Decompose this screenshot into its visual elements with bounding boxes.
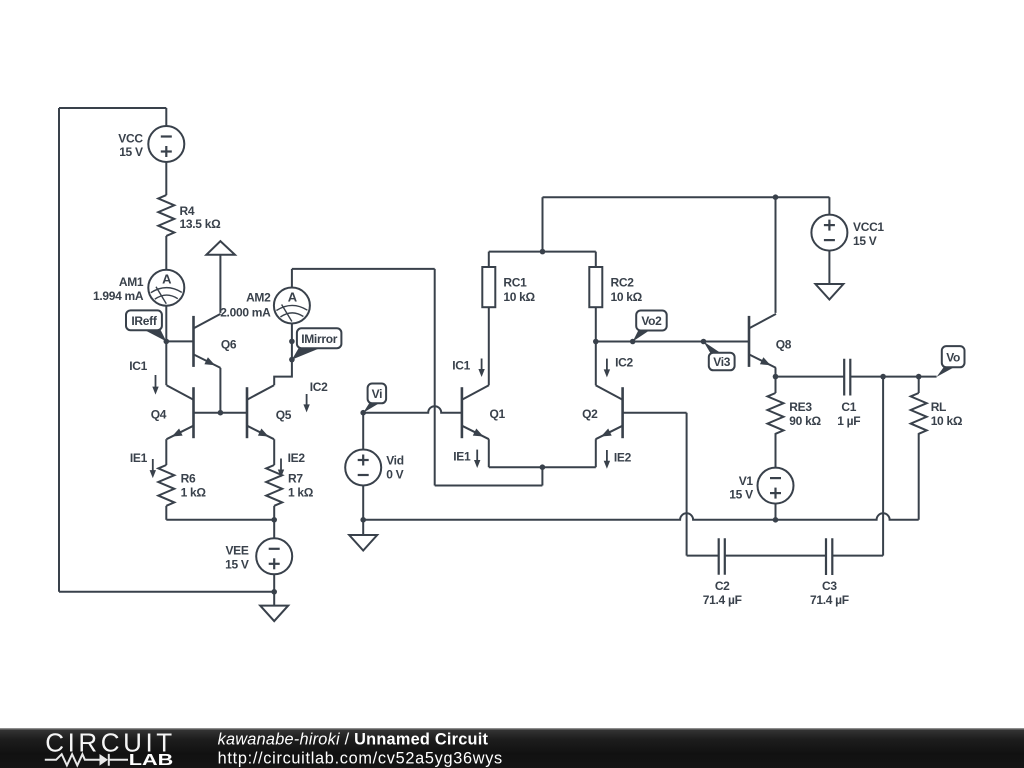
svg-text:IE1: IE1	[453, 449, 471, 463]
junction top rail Q8	[773, 194, 779, 200]
svg-text:RC2: RC2	[611, 276, 635, 290]
wire RE3 top lead	[775, 377, 777, 393]
capacitor C3	[826, 538, 832, 575]
svg-text:IC1: IC1	[452, 359, 470, 373]
node flag Vo	[937, 346, 965, 377]
wire VEE to bottom node	[273, 574, 275, 592]
svg-text:IE1: IE1	[130, 451, 148, 465]
junction RC bus	[540, 249, 546, 255]
wire Q8 collector to top rail	[775, 197, 777, 313]
wire Q1 collector to RC1	[488, 307, 490, 385]
svg-text:IE2: IE2	[614, 451, 632, 465]
current arrow IE1 mirror	[130, 451, 156, 478]
wire Q6 collector to arrow	[219, 255, 221, 313]
voltage source V1	[758, 468, 794, 504]
wire C2-C3 bottom link	[687, 555, 884, 557]
ammeter AM2	[274, 288, 310, 324]
svg-text:10 kΩ: 10 kΩ	[503, 290, 535, 304]
svg-text:15 V: 15 V	[225, 558, 249, 572]
svg-text:AM1: AM1	[119, 275, 144, 289]
wire IReff node to Q4 collector	[165, 341, 167, 385]
svg-text:R4: R4	[180, 204, 195, 218]
svg-text:IC2: IC2	[615, 356, 633, 370]
wire Q4-Q5 base rail	[194, 412, 248, 414]
wire C3 up to output node	[882, 377, 884, 556]
svg-text:Vo: Vo	[946, 350, 960, 364]
wire R6-R7 bottom rail	[166, 519, 274, 521]
transistor Q1	[462, 385, 506, 439]
svg-text:kawanabe-hiroki / Unnamed Circ: kawanabe-hiroki / Unnamed Circuit	[218, 731, 489, 749]
svg-text:Q5: Q5	[276, 408, 292, 422]
wire Q8 emitter stub	[775, 368, 777, 377]
wire Q6 emitter stub	[219, 368, 221, 413]
svg-text:V1: V1	[739, 474, 754, 488]
node flag IReff	[126, 310, 166, 341]
svg-text:IC2: IC2	[310, 380, 328, 394]
wire VCC top lead	[165, 108, 167, 126]
svg-text:Vi: Vi	[372, 387, 383, 401]
ammeter AM1	[148, 270, 184, 306]
svg-text:R6: R6	[181, 472, 196, 486]
resistor R7	[266, 465, 282, 506]
wire VCC to R4	[165, 162, 167, 195]
svg-text:Vo2: Vo2	[641, 314, 662, 328]
svg-text:C1: C1	[841, 400, 856, 414]
svg-text:RC1: RC1	[503, 276, 527, 290]
wire Q2 base	[623, 412, 687, 414]
voltage source VEE	[256, 538, 292, 574]
wire VCC1 top lead	[828, 197, 830, 215]
svg-text:AM2: AM2	[246, 290, 271, 304]
junction VEE bottom	[271, 589, 277, 595]
current arrow IE2 mirror	[278, 451, 306, 477]
svg-text:A: A	[288, 290, 298, 305]
svg-text:71.4 µF: 71.4 µF	[703, 593, 742, 607]
current arrow IE2 diff pair	[604, 450, 632, 469]
transistor Q4	[151, 385, 194, 439]
junction V1 ground rail	[773, 517, 779, 523]
wire Q1-Q2 emitter rail	[489, 466, 596, 468]
supply arrow above Q6	[206, 241, 235, 255]
junction tail-emitter rail	[540, 464, 546, 470]
junction C3 output node	[880, 374, 886, 380]
current arrow IC1 mirror	[129, 359, 158, 394]
svg-text:Vi3: Vi3	[713, 355, 731, 369]
node flag Vi3	[704, 342, 735, 371]
svg-text:71.4 µF: 71.4 µF	[810, 593, 849, 607]
junction IReff node	[164, 339, 170, 345]
wire main ground rail with hops	[363, 513, 919, 520]
junction Q4-Q5 base rail	[218, 410, 224, 416]
voltage source VCC1	[811, 215, 847, 251]
wire RC1-RC2 top bus	[489, 251, 596, 253]
wire AM1 to IReff node	[165, 306, 167, 342]
wire AM2 top horizontal	[292, 268, 435, 270]
junction IMirror lower	[289, 357, 295, 363]
wire RE3 to V1	[775, 433, 777, 467]
wire R7 bottom lead	[273, 506, 275, 520]
wire Vi to Q1 base with hop	[363, 406, 462, 412]
wire diff tail vertical	[434, 269, 436, 486]
wire top rail horizontal	[543, 196, 830, 198]
svg-text:RL: RL	[931, 400, 946, 414]
wire RC2 node to Q2 collector	[595, 342, 597, 386]
junction Vi3 tail	[701, 339, 707, 345]
wire Q2 base down to C2	[686, 413, 688, 556]
svg-text:IReff: IReff	[131, 314, 157, 328]
svg-text:http://circuitlab.com/cv52a5yg: http://circuitlab.com/cv52a5yg36wys	[218, 750, 503, 768]
current arrow IC2 diff pair	[604, 356, 634, 378]
ground below VCC1	[815, 284, 843, 300]
svg-text:VEE: VEE	[225, 544, 248, 558]
wire R6 bottom lead	[165, 506, 167, 520]
wire diff tail horizontal	[435, 485, 543, 487]
wire Vid ground stub	[362, 520, 364, 535]
transistor Q2	[582, 385, 623, 439]
wire Vi node to Vid	[362, 413, 364, 450]
capacitor C1	[844, 359, 850, 396]
resistor R6	[158, 465, 174, 506]
CircuitLab logo resistor-diode glyph	[45, 754, 128, 766]
svg-text:10 kΩ: 10 kΩ	[931, 414, 963, 428]
svg-text:15 V: 15 V	[853, 234, 877, 248]
svg-text:Q4: Q4	[151, 407, 167, 421]
svg-text:0 V: 0 V	[386, 467, 403, 481]
svg-text:Q2: Q2	[582, 407, 598, 421]
svg-text:Q8: Q8	[776, 338, 792, 352]
wire RC2 bottom lead	[595, 307, 597, 341]
wire VCC1 to ground	[828, 250, 830, 284]
svg-text:Vid: Vid	[386, 453, 404, 467]
resistor RC2	[589, 267, 602, 307]
junction Vi node	[360, 410, 366, 416]
junction IMirror upper	[289, 339, 295, 345]
svg-text:RE3: RE3	[789, 400, 812, 414]
svg-text:R7: R7	[288, 472, 303, 486]
wire left vertical rail	[58, 108, 60, 592]
svg-text:VCC1: VCC1	[853, 220, 884, 234]
wire Q2 emitter stub	[595, 439, 597, 467]
wire AM2 top lead	[291, 269, 293, 288]
svg-text:C2: C2	[715, 579, 730, 593]
svg-text:1.994 mA: 1.994 mA	[93, 289, 144, 303]
svg-text:15 V: 15 V	[119, 145, 143, 159]
wire Q1 emitter stub	[488, 439, 490, 467]
svg-text:C3: C3	[822, 579, 837, 593]
wire diff tail up to emitter rail	[541, 467, 543, 485]
wire VEE ground stub	[273, 592, 275, 606]
wire rail to VEE	[273, 520, 275, 539]
wire Q5 collector jog	[274, 323, 292, 385]
wire Q8 emitter node to Vo	[776, 376, 937, 378]
junction Vo2 tail	[630, 339, 636, 345]
current arrow IC2 mirror	[303, 380, 328, 412]
wire RC2 top lead	[595, 252, 597, 267]
transistor Q6	[194, 314, 237, 368]
junction Q8 emitter node	[773, 374, 779, 380]
svg-text:1 µF: 1 µF	[837, 414, 860, 428]
wire top rail left drop	[542, 197, 544, 251]
svg-text:1 kΩ: 1 kΩ	[288, 486, 314, 500]
wire Q6 base	[166, 340, 193, 342]
svg-text:Q6: Q6	[221, 338, 237, 352]
ground below VEE	[260, 606, 288, 622]
svg-text:LAB: LAB	[129, 752, 174, 768]
voltage source VCC	[148, 126, 184, 162]
resistor R4	[158, 195, 174, 236]
capacitor C2	[719, 538, 725, 574]
svg-text:10 kΩ: 10 kΩ	[611, 290, 643, 304]
svg-text:A: A	[162, 272, 172, 287]
svg-text:15 V: 15 V	[729, 488, 753, 502]
wire mirror row to Q8 base	[596, 341, 749, 343]
svg-text:90 kΩ: 90 kΩ	[789, 414, 821, 428]
wire R4 to AM1	[165, 236, 167, 270]
svg-text:1 kΩ: 1 kΩ	[181, 486, 207, 500]
wire Vid to ground rail	[362, 486, 364, 520]
voltage source Vid	[345, 450, 381, 486]
wire bottom-left horizontal	[59, 591, 274, 593]
svg-text:IC1: IC1	[129, 359, 147, 373]
node flag Vo2	[633, 311, 667, 342]
resistor RC1	[482, 267, 495, 307]
current arrow IC1 diff pair	[452, 359, 485, 378]
svg-text:2.000 mA: 2.000 mA	[220, 306, 271, 320]
junction RC2-Vo2 node	[593, 339, 599, 345]
node flag Vi	[363, 384, 386, 413]
svg-text:Q1: Q1	[490, 407, 506, 421]
resistor RE3	[768, 393, 784, 434]
ground below Vid	[349, 535, 377, 551]
bottom bar background	[0, 728, 1024, 768]
junction R6R7-VEE	[271, 517, 277, 523]
resistor RL	[911, 393, 927, 434]
wire RL top lead	[918, 377, 920, 393]
node flag IMirror	[292, 328, 342, 359]
junction Vid ground	[360, 517, 366, 523]
wire Q4 emitter to R6	[165, 439, 167, 465]
svg-text:13.5 kΩ: 13.5 kΩ	[180, 217, 222, 231]
svg-text:IE2: IE2	[288, 451, 306, 465]
current arrow IE1 diff pair	[453, 449, 480, 468]
wire top-left horizontal	[59, 107, 166, 109]
wire Q5 emitter to R7	[273, 439, 275, 465]
junction RL top	[916, 374, 922, 380]
transistor Q8	[749, 314, 792, 368]
svg-text:IMirror: IMirror	[301, 332, 338, 346]
wire V1 to ground rail	[775, 504, 777, 520]
wire RC1 top lead	[488, 252, 490, 267]
transistor Q5	[247, 385, 292, 439]
wire RL bottom lead	[918, 433, 920, 520]
svg-text:VCC: VCC	[118, 131, 143, 145]
